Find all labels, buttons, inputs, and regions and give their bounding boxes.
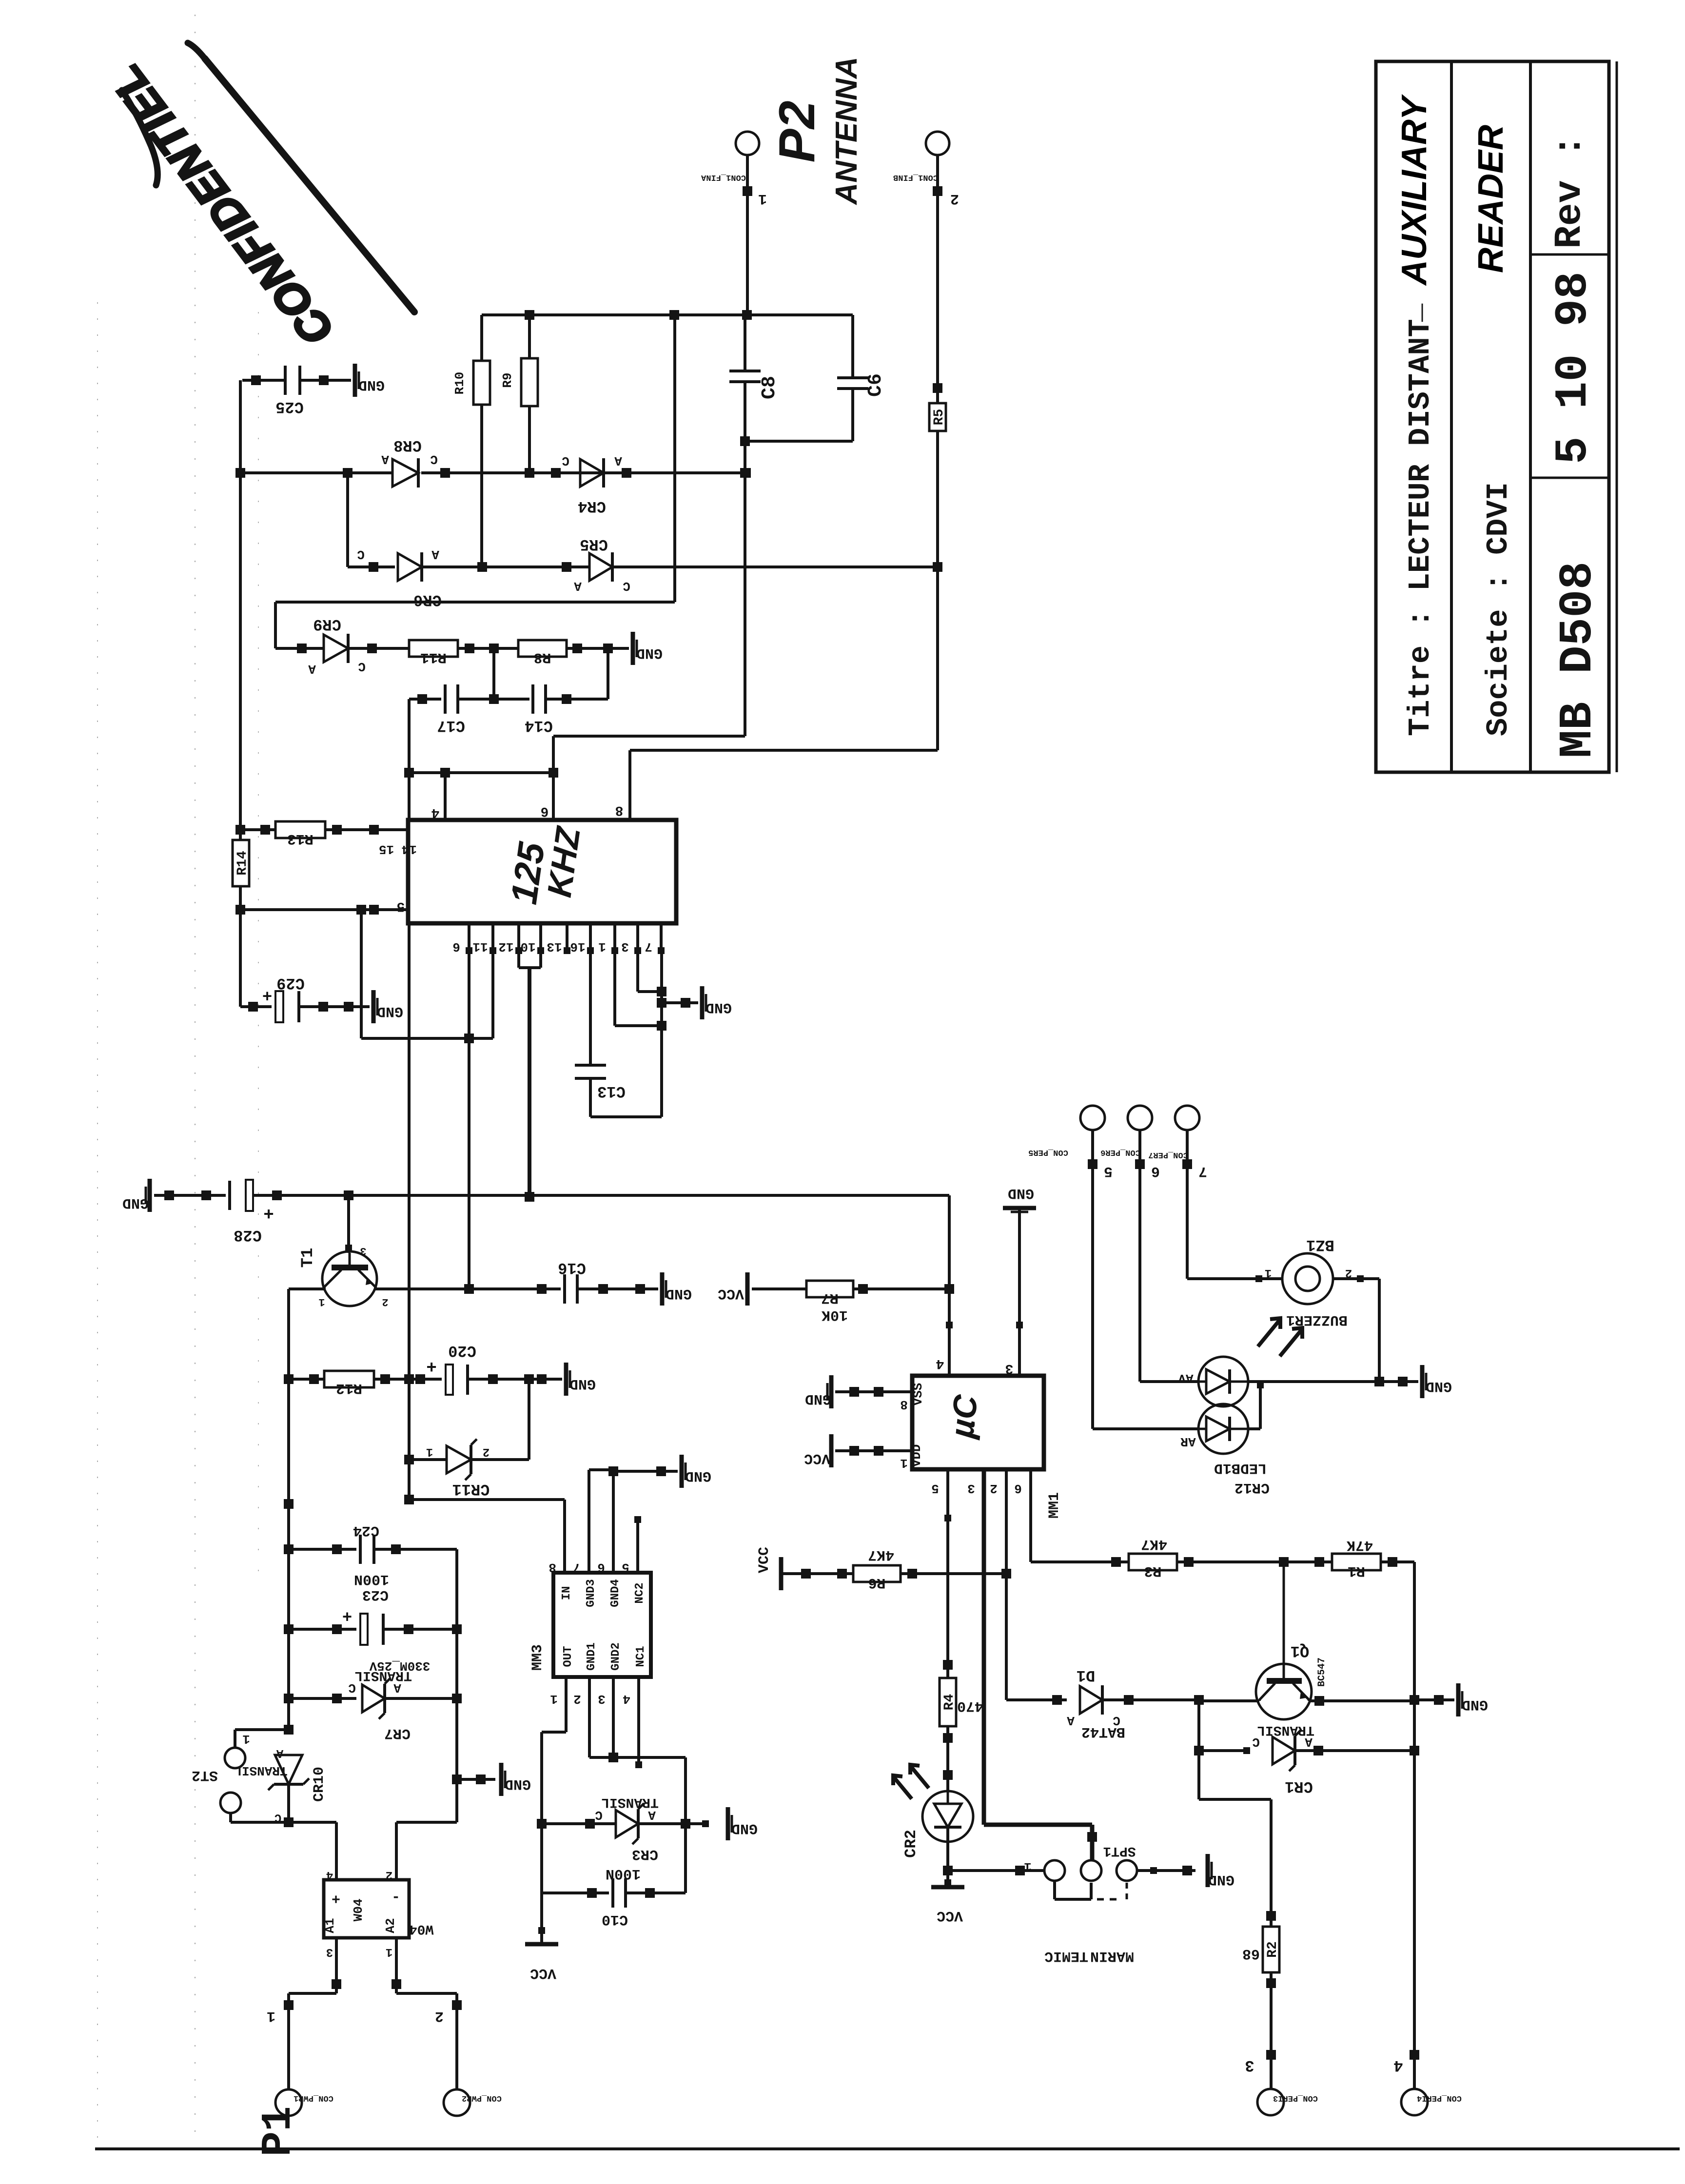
svg-text:C20: C20 (448, 1342, 476, 1360)
svg-text:5: 5 (931, 1481, 939, 1496)
svg-text:CR9: CR9 (313, 615, 341, 633)
svg-text:GND: GND (358, 376, 385, 393)
svg-text:10K: 10K (822, 1306, 848, 1323)
svg-text:14 15: 14 15 (379, 842, 417, 857)
svg-text:6: 6 (1014, 1481, 1022, 1496)
svg-text:R9: R9 (500, 372, 515, 388)
svg-text:4: 4 (326, 1868, 333, 1881)
svg-text:MARIN: MARIN (1090, 1948, 1134, 1964)
svg-text:ST2: ST2 (192, 1767, 218, 1783)
svg-text:NC2: NC2 (633, 1582, 647, 1603)
svg-text:GND4: GND4 (609, 1579, 622, 1607)
svg-text:TEMIC: TEMIC (1044, 1948, 1088, 1964)
svg-text:7: 7 (573, 1560, 581, 1575)
svg-text:1: 1 (550, 1692, 558, 1706)
svg-text:4: 4 (1393, 2056, 1403, 2074)
svg-text:CON_PERI3: CON_PERI3 (1273, 2093, 1318, 2103)
svg-text:C: C (562, 453, 569, 468)
svg-text:R11: R11 (420, 649, 447, 665)
svg-text:2: 2 (483, 1445, 490, 1458)
svg-text:CR7: CR7 (384, 1725, 411, 1741)
svg-text:3: 3 (1245, 2056, 1254, 2074)
svg-text:CR5: CR5 (580, 535, 608, 553)
svg-text:Societe : CDVI: Societe : CDVI (1481, 482, 1516, 736)
svg-text:GND2: GND2 (609, 1642, 623, 1671)
svg-text:C8: C8 (759, 376, 781, 399)
svg-text:CON_PER6: CON_PER6 (1100, 1148, 1140, 1157)
svg-text:READER: READER (1471, 125, 1510, 273)
svg-text:1: 1 (1024, 1859, 1032, 1874)
svg-text:D1: D1 (1077, 1666, 1095, 1684)
svg-text:MM1: MM1 (1046, 1492, 1063, 1519)
svg-text:P2: P2 (769, 100, 825, 162)
svg-text:2: 2 (386, 1868, 392, 1881)
svg-text:R8: R8 (533, 649, 551, 665)
svg-text:MM3: MM3 (529, 1644, 546, 1671)
svg-text:4: 4 (623, 1692, 630, 1706)
svg-text:C14: C14 (525, 717, 553, 735)
svg-text:3: 3 (621, 939, 629, 954)
svg-text:1: 1 (598, 939, 606, 954)
svg-text:1: 1 (1265, 1266, 1272, 1279)
svg-text:A: A (614, 453, 622, 468)
svg-text:C16: C16 (558, 1259, 586, 1277)
svg-text:GND: GND (505, 1775, 531, 1792)
svg-text:1: 1 (386, 1945, 392, 1958)
svg-text:VDD: VDD (909, 1444, 924, 1467)
svg-text:GND: GND (1426, 1378, 1452, 1394)
svg-text:C6: C6 (865, 373, 887, 397)
svg-text:AR: AR (1180, 1434, 1196, 1449)
svg-text:GND: GND (122, 1194, 149, 1211)
svg-text:2: 2 (950, 190, 959, 207)
svg-text:GND: GND (685, 1467, 711, 1484)
svg-text:C25: C25 (275, 398, 304, 416)
svg-text:C28: C28 (234, 1226, 262, 1244)
svg-text:7: 7 (645, 939, 652, 954)
svg-text:AV: AV (1178, 1371, 1194, 1385)
svg-text:SPT1: SPT1 (1103, 1843, 1136, 1858)
svg-text:5 10 98: 5 10 98 (1548, 272, 1600, 464)
svg-text:2: 2 (1345, 1266, 1352, 1279)
svg-text:AUXILIARY: AUXILIARY (1395, 94, 1434, 286)
svg-text:TRANSIL: TRANSIL (354, 1668, 412, 1683)
svg-text:R12: R12 (336, 1380, 362, 1396)
svg-text:VSS: VSS (911, 1383, 925, 1406)
svg-text:T1: T1 (299, 1248, 317, 1268)
svg-text:R10: R10 (452, 372, 467, 395)
svg-text:47K: 47K (1347, 1537, 1373, 1553)
svg-text:Q1: Q1 (1291, 1642, 1309, 1660)
svg-text:A: A (431, 547, 439, 562)
svg-text:CON1_FINB: CON1_FINB (893, 173, 938, 182)
svg-text:TRANSIL: TRANSIL (1257, 1722, 1314, 1737)
svg-text:6: 6 (597, 1560, 605, 1575)
svg-text:GND3: GND3 (585, 1579, 598, 1607)
svg-text:C17: C17 (437, 717, 465, 735)
svg-text:5: 5 (1104, 1163, 1113, 1179)
svg-text:R7: R7 (821, 1289, 839, 1306)
svg-text:W04: W04 (409, 1921, 433, 1936)
svg-text:OUT: OUT (562, 1646, 575, 1667)
svg-text:6: 6 (541, 803, 549, 819)
svg-text:GND: GND (569, 1375, 596, 1392)
svg-text:C23: C23 (362, 1586, 389, 1603)
svg-text:A: A (381, 452, 389, 467)
svg-text:3: 3 (326, 1945, 333, 1958)
svg-text:CON_PWR2: CON_PWR2 (462, 2093, 502, 2103)
svg-text:1: 1 (318, 1296, 325, 1308)
svg-text:7: 7 (1198, 1163, 1207, 1179)
svg-text:4: 4 (431, 805, 440, 820)
svg-text:C13: C13 (597, 1082, 626, 1100)
svg-text:GND: GND (805, 1390, 831, 1407)
svg-text:GND: GND (666, 1285, 692, 1302)
svg-text:TRANSIL: TRANSIL (601, 1794, 659, 1810)
svg-text:R13: R13 (287, 830, 313, 847)
svg-text:GND: GND (705, 999, 732, 1015)
svg-text:5: 5 (622, 1560, 629, 1575)
svg-text:1: 1 (758, 190, 767, 207)
svg-text:2: 2 (990, 1481, 998, 1496)
svg-text:68: 68 (1242, 1945, 1260, 1962)
svg-text:16: 16 (570, 939, 585, 954)
svg-text:CON_PERI4: CON_PERI4 (1417, 2093, 1462, 2103)
svg-text:CR3: CR3 (632, 1846, 658, 1862)
svg-text:VCC: VCC (804, 1450, 830, 1466)
svg-text:R4: R4 (942, 1694, 957, 1711)
svg-text:A: A (308, 662, 316, 676)
svg-text:-: - (392, 1889, 400, 1905)
svg-text:R3: R3 (1144, 1562, 1161, 1579)
svg-text:100N: 100N (606, 1865, 641, 1882)
svg-text:C: C (274, 1811, 281, 1824)
svg-text:C: C (430, 452, 438, 467)
svg-text:TRANSIL: TRANSIL (234, 1763, 287, 1778)
svg-text:VCC: VCC (756, 1547, 773, 1573)
svg-text:1: 1 (900, 1456, 908, 1470)
svg-text:Titre : LECTEUR DISTANT: Titre : LECTEUR DISTANT (1403, 319, 1438, 736)
svg-text:GND: GND (1462, 1696, 1488, 1713)
svg-text:+: + (426, 1356, 437, 1376)
svg-text:12: 12 (498, 939, 513, 954)
svg-text:3: 3 (1005, 1361, 1014, 1376)
svg-text:CON1_FINA: CON1_FINA (701, 173, 746, 182)
svg-text:MB D508: MB D508 (1551, 562, 1605, 758)
svg-text:_: _ (1394, 303, 1429, 322)
svg-text:BC547: BC547 (1316, 1657, 1328, 1687)
svg-text:VCC: VCC (937, 1907, 963, 1924)
svg-text:BUZZER1: BUZZER1 (1286, 1311, 1348, 1328)
svg-text:2: 2 (382, 1296, 388, 1308)
svg-text:1: 1 (242, 1732, 250, 1746)
svg-text:W04: W04 (351, 1899, 366, 1922)
svg-text:C: C (357, 547, 365, 562)
svg-text:µC: µC (943, 1393, 985, 1441)
svg-text:1: 1 (267, 2008, 275, 2024)
svg-text:CR6: CR6 (413, 591, 442, 609)
svg-text:+: + (332, 1890, 340, 1906)
svg-text:VCC: VCC (530, 1965, 556, 1981)
svg-text:11: 11 (472, 939, 488, 954)
svg-text:13: 13 (547, 939, 562, 954)
svg-text:P1: P1 (255, 2106, 302, 2156)
svg-text:C24: C24 (353, 1522, 379, 1539)
svg-text:4K7: 4K7 (1141, 1536, 1167, 1552)
svg-text:A1: A1 (323, 1918, 337, 1933)
svg-text:CR10: CR10 (311, 1767, 328, 1802)
svg-text:3: 3 (598, 1692, 606, 1706)
svg-text:R14: R14 (235, 851, 250, 875)
svg-text:C: C (623, 579, 630, 593)
svg-text:CR1: CR1 (1285, 1777, 1313, 1795)
svg-text:LEDB1D: LEDB1D (1214, 1460, 1267, 1476)
svg-text:4: 4 (936, 1356, 944, 1371)
svg-text:4K7: 4K7 (868, 1546, 894, 1563)
svg-text:C: C (358, 659, 366, 674)
svg-text:2: 2 (573, 1692, 581, 1706)
svg-text:R5: R5 (932, 409, 947, 426)
svg-text:GND: GND (1008, 1185, 1034, 1201)
svg-text:GND1: GND1 (585, 1642, 598, 1671)
svg-text:3: 3 (967, 1481, 975, 1496)
svg-text:R6: R6 (868, 1574, 885, 1591)
svg-text:C10: C10 (602, 1911, 628, 1928)
svg-text:CON_PER5: CON_PER5 (1028, 1148, 1068, 1157)
svg-text:+: + (263, 1203, 274, 1223)
svg-text:A: A (276, 1746, 283, 1759)
svg-text:CON_PWR1: CON_PWR1 (294, 2093, 333, 2103)
svg-text:CR11: CR11 (452, 1480, 490, 1498)
svg-text:R1: R1 (1348, 1562, 1365, 1579)
svg-text:CR2: CR2 (902, 1830, 920, 1858)
svg-text:CON_PER7: CON_PER7 (1148, 1150, 1188, 1159)
svg-text:CONFIDENTIEL: CONFIDENTIEL (100, 55, 343, 354)
svg-text:470: 470 (957, 1697, 983, 1714)
svg-text:CR8: CR8 (393, 436, 422, 454)
svg-text:R2: R2 (1265, 1941, 1280, 1958)
svg-text:A: A (1067, 1713, 1075, 1728)
svg-text:GND: GND (636, 644, 663, 661)
svg-text:5: 5 (397, 898, 405, 914)
svg-text:3: 3 (360, 1245, 366, 1257)
svg-text:GND: GND (731, 1820, 758, 1836)
svg-text:A: A (574, 579, 582, 593)
svg-text:IN: IN (560, 1586, 573, 1600)
svg-text:VCC: VCC (718, 1285, 744, 1302)
svg-text:8: 8 (900, 1397, 908, 1412)
svg-text:GND: GND (377, 1003, 403, 1019)
svg-text:ANTENNA: ANTENNA (830, 57, 863, 205)
svg-text:6: 6 (452, 939, 460, 954)
svg-text:2: 2 (435, 2008, 444, 2024)
svg-text:CR12: CR12 (1234, 1479, 1270, 1496)
svg-text:10: 10 (520, 939, 535, 954)
svg-text:CR4: CR4 (578, 497, 606, 515)
svg-text:+: + (262, 985, 272, 1004)
svg-text:GND: GND (1208, 1871, 1234, 1888)
svg-text:8: 8 (549, 1560, 556, 1575)
svg-text:A2: A2 (383, 1918, 398, 1933)
svg-text:6: 6 (1151, 1163, 1160, 1179)
svg-text:BAT42: BAT42 (1081, 1723, 1125, 1740)
svg-text:1: 1 (426, 1445, 433, 1458)
svg-text:NC1: NC1 (634, 1646, 647, 1667)
svg-text:Rev :: Rev : (1548, 135, 1591, 249)
svg-text:C29: C29 (276, 974, 305, 992)
svg-text:8: 8 (615, 802, 624, 818)
svg-text:+: + (342, 1606, 352, 1624)
svg-text:100N: 100N (354, 1571, 389, 1587)
svg-text:BZ1: BZ1 (1306, 1236, 1334, 1254)
